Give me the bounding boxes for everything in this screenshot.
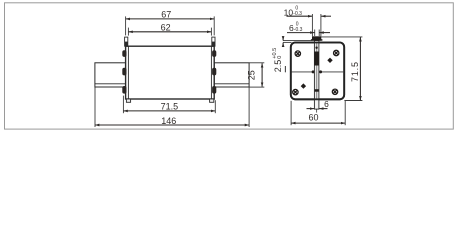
svg-text:71.5: 71.5 bbox=[350, 61, 360, 82]
svg-text:146: 146 bbox=[161, 116, 176, 126]
svg-text:25: 25 bbox=[246, 70, 256, 80]
svg-text:-0.3: -0.3 bbox=[294, 27, 303, 33]
svg-text:60: 60 bbox=[308, 112, 318, 122]
svg-text:10: 10 bbox=[284, 7, 294, 17]
svg-text:0: 0 bbox=[277, 56, 283, 59]
svg-text:71.5: 71.5 bbox=[161, 102, 179, 112]
svg-text:67: 67 bbox=[161, 9, 171, 19]
svg-text:62: 62 bbox=[161, 22, 171, 32]
svg-text:2.5: 2.5 bbox=[273, 60, 283, 73]
svg-text:-0.3: -0.3 bbox=[293, 11, 302, 17]
svg-text:6: 6 bbox=[324, 99, 329, 109]
